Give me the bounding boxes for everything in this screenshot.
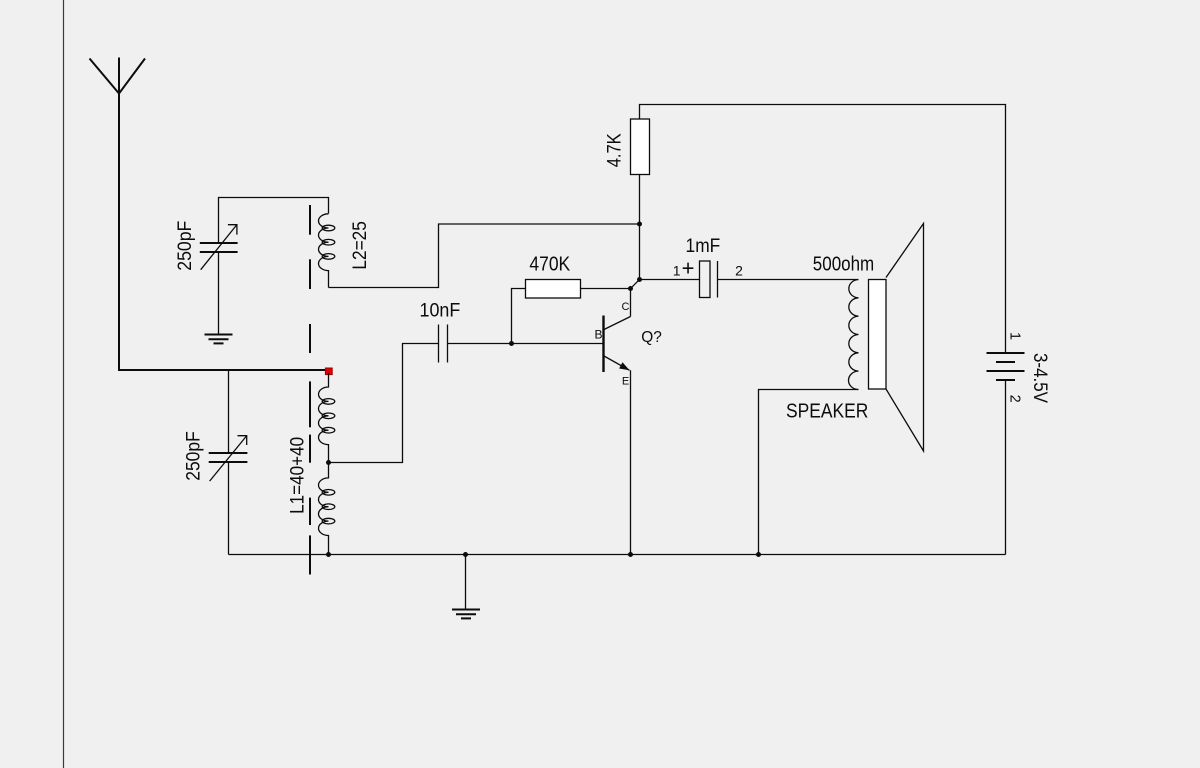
- inductor L2=25: [319, 214, 371, 288]
- junction collector node: [637, 277, 642, 282]
- wire speaker return to ground rail: [759, 390, 859, 555]
- speaker magnet: [869, 280, 887, 390]
- svg-text:250pF: 250pF: [184, 431, 205, 481]
- svg-text:Q?: Q?: [641, 329, 662, 346]
- speaker 500ohm: [786, 224, 924, 452]
- svg-text:B: B: [594, 328, 602, 342]
- junction emitter on rail: [628, 552, 633, 557]
- wire C1 bottom to ground: [218, 252, 220, 335]
- junction L1 bottom on rail: [326, 552, 331, 557]
- antenna: [90, 58, 146, 94]
- wire top rail to battery: [640, 105, 1006, 353]
- wire tuning node to C2 top: [228, 371, 230, 452]
- svg-text:L2=25: L2=25: [350, 221, 371, 269]
- wire antenna mast to tuning node: [118, 92, 329, 370]
- wire 470K to collector node: [581, 288, 631, 290]
- battery 3-4.5V: [987, 332, 1050, 403]
- junction speaker return on rail: [756, 552, 761, 557]
- junction ground stub on rail: [463, 552, 468, 557]
- transistor Q?: [594, 301, 661, 388]
- variable capacitor C1 250pF: [175, 221, 238, 271]
- svg-text:SPEAKER: SPEAKER: [786, 401, 868, 423]
- wire L2 bottom to resistor 4.7K node: [329, 224, 640, 288]
- ground (bottom center): [452, 610, 480, 619]
- node (red): [325, 368, 332, 375]
- junction L1 center tap: [326, 460, 331, 465]
- capacitor 10nF: [420, 300, 461, 362]
- svg-text:1mF: 1mF: [686, 236, 721, 257]
- resistor 470K: [526, 253, 581, 298]
- svg-text:L1=40+40: L1=40+40: [288, 437, 309, 514]
- ground (top left): [205, 335, 233, 344]
- wire 4.7K bottom to collector node: [639, 175, 641, 280]
- svg-text:470K: 470K: [529, 253, 570, 275]
- junction base node: [509, 341, 514, 346]
- svg-text:250pF: 250pF: [175, 221, 196, 271]
- svg-text:4.7K: 4.7K: [605, 133, 626, 167]
- wire 1mF to speaker coil: [718, 279, 859, 281]
- speaker cone: [886, 224, 924, 452]
- wire L1 tap to capacitor 10nF: [329, 344, 439, 463]
- resistor 4.7K: [605, 119, 650, 175]
- capacitor 1mF: [673, 236, 743, 298]
- svg-text:C: C: [622, 301, 630, 313]
- svg-text:2: 2: [735, 263, 743, 279]
- svg-text:1: 1: [673, 263, 681, 279]
- ferrite core (dashed): [309, 205, 311, 575]
- transformer coil 500ohm: [848, 280, 858, 390]
- wire collector to 1mF: [640, 279, 700, 281]
- wire C1 top to L2 top: [219, 198, 329, 243]
- variable capacitor C2 250pF: [184, 431, 248, 481]
- wire C2 bottom to ground rail: [228, 462, 230, 555]
- wire rail to ground symbol: [465, 555, 467, 610]
- svg-text:3-4.5V: 3-4.5V: [1029, 353, 1050, 403]
- svg-text:10nF: 10nF: [420, 300, 461, 321]
- wire emitter to ground rail: [630, 370, 632, 554]
- svg-text:2: 2: [1006, 395, 1022, 403]
- junction under 4.7K: [637, 222, 642, 227]
- svg-text:1: 1: [1006, 332, 1022, 340]
- wire 10nF to transistor base: [448, 343, 603, 345]
- inductor L1=40+40: [288, 373, 335, 555]
- junction 470K right: [628, 286, 633, 291]
- svg-text:+: +: [682, 256, 695, 281]
- wire battery bottom to ground rail: [1005, 380, 1007, 555]
- svg-text:500ohm: 500ohm: [813, 253, 874, 275]
- ground rail (bottom): [229, 554, 1006, 556]
- wire base node to resistor 470K: [512, 289, 526, 344]
- wire collector jog: [631, 280, 640, 317]
- svg-text:E: E: [622, 376, 629, 388]
